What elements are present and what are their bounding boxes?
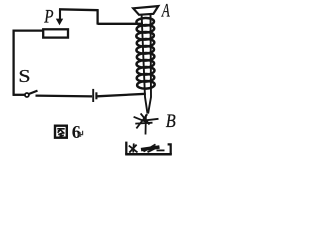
- screw head (trapezoid): [133, 6, 158, 15]
- rheostat slider arrow shaft: [59, 9, 61, 20]
- pin cluster at nail tip: [134, 113, 159, 134]
- coil turn 8: [137, 67, 155, 75]
- tray right wall: [168, 144, 171, 154]
- coil turn 2: [136, 25, 154, 33]
- wire step to coil top: [98, 23, 143, 25]
- svg-text:6: 6: [72, 122, 81, 142]
- caption return mark: [79, 131, 83, 137]
- tray bottom: [125, 153, 172, 156]
- svg-text:A: A: [161, 0, 170, 21]
- caption glyph 图: [55, 126, 67, 138]
- coil turn 7: [136, 60, 154, 68]
- coil turn 10: [137, 81, 155, 89]
- coil turn 1: [136, 18, 154, 26]
- nail shank left edge: [142, 15, 148, 114]
- wire step vertical: [96, 9, 98, 24]
- coil turn 3: [136, 32, 154, 40]
- switch S lever (open): [29, 91, 38, 94]
- pins inside tray: [129, 143, 165, 152]
- coil turn 5: [136, 46, 154, 54]
- coil turn 9: [137, 74, 155, 82]
- wire left top horizontal: [13, 29, 44, 31]
- tray left wall: [125, 142, 127, 155]
- svg-text:B: B: [166, 110, 176, 131]
- wire left vertical: [12, 30, 14, 96]
- switch S pivot contact: [25, 93, 29, 97]
- coil turn 4: [137, 39, 155, 47]
- svg-text:S: S: [18, 67, 30, 87]
- rheostat body (slide resistor): [43, 29, 68, 37]
- wire switch to battery: [36, 94, 93, 97]
- battery short plate: [95, 92, 97, 99]
- nail shank right edge: [148, 14, 151, 113]
- wire battery to coil: [97, 94, 146, 97]
- wire arrow top to step corner: [59, 8, 99, 11]
- rheostat slider arrowhead: [56, 19, 63, 26]
- svg-text:P: P: [43, 6, 54, 27]
- coil turn 6: [137, 53, 155, 61]
- wire bottom-left to switch: [13, 94, 25, 96]
- battery long plate: [92, 89, 94, 102]
